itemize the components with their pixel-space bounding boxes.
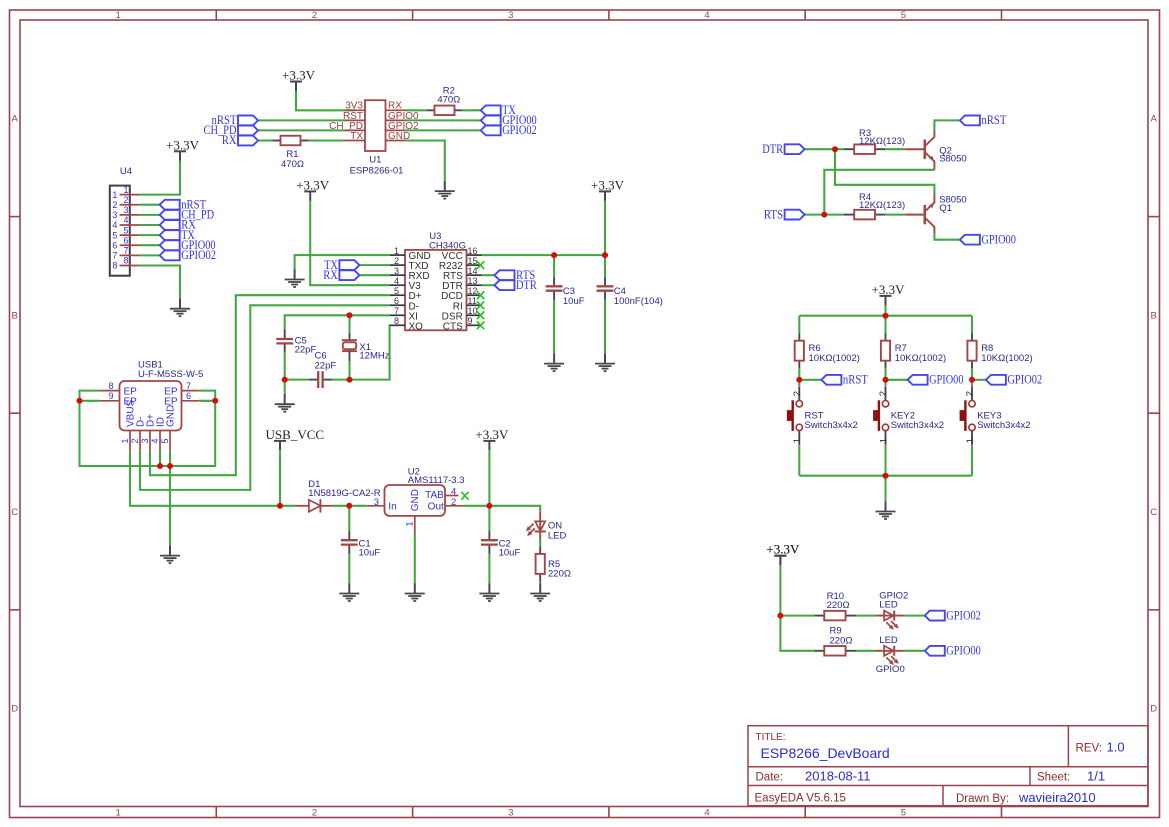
svg-text:2: 2 [965,391,976,396]
svg-text:D: D [1150,704,1157,715]
svg-text:13: 13 [468,276,478,286]
svg-text:U4: U4 [120,166,132,177]
svg-text:CTS: CTS [443,321,463,332]
svg-text:8: 8 [123,256,128,266]
svg-text:11: 11 [468,296,477,306]
svg-text:+3.3V: +3.3V [166,137,200,152]
svg-text:4: 4 [704,10,709,21]
svg-text:8: 8 [108,381,113,391]
svg-text:12KΩ(123): 12KΩ(123) [859,200,905,211]
svg-text:5: 5 [901,10,906,21]
svg-text:7: 7 [123,246,128,256]
svg-text:2: 2 [312,807,317,818]
svg-text:C: C [1150,507,1157,518]
svg-text:15: 15 [468,256,478,266]
svg-text:+3.3V: +3.3V [282,68,316,83]
svg-text:8: 8 [112,261,117,271]
svg-text:2: 2 [123,195,128,205]
svg-text:12: 12 [468,286,478,296]
svg-text:+3.3V: +3.3V [766,542,800,557]
svg-text:1: 1 [878,438,889,443]
svg-text:RX: RX [222,133,237,147]
svg-text:wavieira2010: wavieira2010 [1018,790,1096,805]
svg-text:5: 5 [123,225,128,235]
svg-text:9: 9 [108,391,113,401]
svg-text:14: 14 [468,266,478,276]
svg-text:A: A [1151,114,1158,125]
svg-text:7: 7 [112,251,117,261]
svg-text:TAB: TAB [425,490,444,501]
svg-text:12KΩ(123): 12KΩ(123) [859,136,905,147]
svg-text:220Ω: 220Ω [830,635,853,646]
svg-text:U-F-M5SS-W-5: U-F-M5SS-W-5 [138,369,203,380]
svg-text:2: 2 [878,391,889,396]
svg-text:D: D [11,704,18,715]
svg-text:470Ω: 470Ω [281,159,304,170]
svg-text:1: 1 [405,521,416,526]
svg-text:470Ω: 470Ω [437,95,460,106]
svg-text:B: B [1151,310,1157,321]
svg-text:EasyEDA V5.6.15: EasyEDA V5.6.15 [755,793,846,805]
svg-text:LED: LED [548,530,567,541]
svg-text:6: 6 [123,235,128,245]
svg-text:2: 2 [394,256,399,266]
svg-text:TITLE:: TITLE: [756,732,786,743]
svg-text:GPIO02: GPIO02 [1007,373,1042,387]
svg-text:CH340G: CH340G [429,240,466,251]
svg-text:6: 6 [112,240,117,250]
svg-text:1: 1 [116,807,121,818]
svg-text:5: 5 [160,438,170,443]
svg-text:GPIO00: GPIO00 [929,373,963,387]
svg-text:C: C [11,507,18,518]
svg-text:U1: U1 [369,155,381,166]
svg-text:2: 2 [451,497,456,508]
svg-text:LED: LED [879,635,898,646]
svg-text:Switch3x4x2: Switch3x4x2 [805,420,858,431]
svg-text:220Ω: 220Ω [548,569,571,580]
svg-text:4: 4 [150,438,160,443]
svg-text:6: 6 [186,391,191,401]
svg-text:10KΩ(1002): 10KΩ(1002) [809,353,860,364]
svg-text:GPIO00: GPIO00 [981,232,1016,246]
svg-text:AMS1117-3.3: AMS1117-3.3 [408,475,465,486]
svg-text:10KΩ(1002): 10KΩ(1002) [981,353,1032,364]
svg-text:2: 2 [312,10,317,21]
svg-text:GPIO02: GPIO02 [946,608,981,622]
svg-text:1: 1 [116,10,121,21]
svg-text:+3.3V: +3.3V [296,177,330,192]
svg-text:4: 4 [394,276,399,286]
svg-text:10uF: 10uF [359,548,381,559]
svg-text:+3.3V: +3.3V [475,427,509,442]
svg-text:1: 1 [394,246,399,256]
svg-text:LED: LED [879,599,898,610]
svg-text:3: 3 [112,210,117,220]
svg-text:16: 16 [468,246,478,256]
svg-text:S8050: S8050 [939,154,966,165]
svg-text:1: 1 [112,190,117,200]
svg-text:GND: GND [388,131,410,142]
svg-text:1: 1 [120,438,130,443]
svg-text:4: 4 [704,807,709,818]
svg-text:12MHz: 12MHz [359,350,389,361]
svg-text:B: B [12,310,18,321]
svg-text:1: 1 [123,185,128,195]
svg-text:USB_VCC: USB_VCC [266,427,325,442]
svg-text:ESP8266_DevBoard: ESP8266_DevBoard [761,745,890,761]
svg-text:7: 7 [186,381,191,391]
svg-text:GPIO02: GPIO02 [181,248,216,262]
svg-text:RX: RX [323,268,338,282]
svg-text:4: 4 [112,220,117,230]
svg-text:22pF: 22pF [315,361,337,372]
svg-text:3: 3 [140,438,150,443]
svg-text:3: 3 [508,807,513,818]
svg-text:A: A [12,114,19,125]
svg-text:3: 3 [508,10,513,21]
svg-text:nRST: nRST [843,373,868,387]
svg-text:1N5819G-CA2-R: 1N5819G-CA2-R [308,488,380,499]
svg-text:2: 2 [130,438,140,443]
svg-text:220Ω: 220Ω [827,600,850,611]
svg-text:nRST: nRST [981,113,1006,127]
svg-text:6: 6 [394,296,399,306]
svg-text:+3.3V: +3.3V [591,177,625,192]
svg-text:RTS: RTS [764,207,783,221]
svg-text:2018-08-11: 2018-08-11 [805,769,871,784]
svg-text:Out: Out [428,502,444,513]
svg-text:Sheet:: Sheet: [1037,772,1070,784]
svg-text:10uF: 10uF [499,548,521,559]
svg-text:10: 10 [468,306,478,316]
svg-text:1: 1 [965,438,976,443]
svg-text:22pF: 22pF [295,344,317,355]
svg-text:Switch3x4x2: Switch3x4x2 [891,420,944,431]
svg-text:10KΩ(1002): 10KΩ(1002) [895,353,946,364]
svg-text:4: 4 [123,215,128,225]
svg-text:Switch3x4x2: Switch3x4x2 [977,420,1030,431]
svg-text:DTR: DTR [516,278,538,292]
svg-text:7: 7 [394,306,399,316]
svg-text:8: 8 [394,316,399,326]
svg-text:10uF: 10uF [563,296,585,307]
svg-text:GPIO00: GPIO00 [946,644,981,658]
svg-text:2: 2 [112,200,117,210]
svg-text:GND: GND [166,405,177,427]
svg-text:3: 3 [123,205,128,215]
svg-text:5: 5 [394,286,399,296]
svg-text:Drawn By:: Drawn By: [956,793,1009,805]
svg-text:5: 5 [112,230,117,240]
svg-text:Q1: Q1 [939,203,952,214]
svg-text:1.0: 1.0 [1107,740,1125,755]
svg-text:+3.3V: +3.3V [872,282,906,297]
svg-text:REV:: REV: [1076,743,1102,755]
svg-text:GPIO02: GPIO02 [502,123,537,137]
svg-text:1/1: 1/1 [1087,769,1105,784]
svg-text:3: 3 [394,266,399,276]
svg-text:Date:: Date: [756,772,784,784]
svg-text:In: In [388,502,396,513]
svg-text:ESP8266-01: ESP8266-01 [350,165,404,176]
svg-text:1: 1 [792,438,803,443]
svg-text:DTR: DTR [762,142,784,156]
svg-text:3: 3 [374,497,379,508]
svg-text:9: 9 [468,316,473,326]
svg-text:GPIO0: GPIO0 [876,664,905,675]
svg-text:2: 2 [792,391,803,396]
svg-text:XO: XO [409,321,424,332]
svg-text:5: 5 [901,807,906,818]
svg-text:100nF(104): 100nF(104) [614,296,663,307]
svg-text:GND: GND [410,489,421,511]
svg-text:TX: TX [350,131,363,142]
